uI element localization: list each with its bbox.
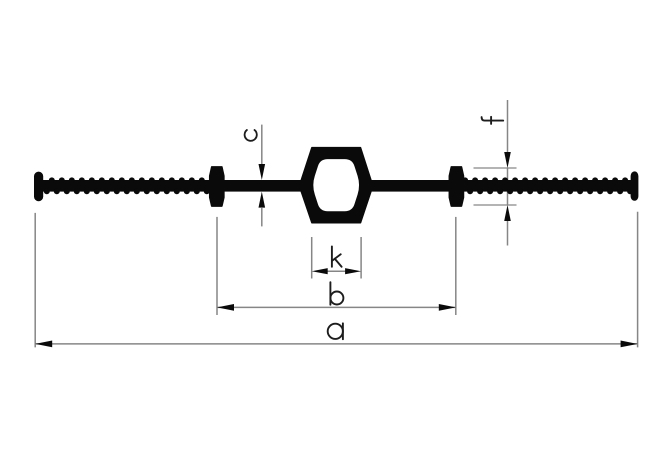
left anchor rib: [210, 167, 224, 206]
centre hollow tube: [301, 148, 371, 223]
dimension c upper witness line: [261, 125, 263, 167]
right arm bottom ribs: [467, 188, 473, 194]
right serrated arm web: [462, 180, 631, 192]
dimension b right extension line: [455, 217, 457, 315]
dimension a left arrow: [35, 341, 52, 348]
dimension k left extension line: [311, 237, 313, 279]
web between left rib and centre tube: [217, 180, 304, 192]
left end bulb: [34, 172, 43, 202]
dimension a left extension line: [34, 213, 36, 348]
dimension b line: [217, 306, 456, 308]
dimension k right extension line: [360, 237, 362, 279]
dimension c label: [245, 130, 257, 141]
dimension c upper arrow: [259, 164, 266, 180]
dimension f upper arrow: [504, 152, 511, 168]
right anchor rib: [449, 167, 463, 206]
dimension b left extension line: [216, 217, 218, 315]
dimension a right arrow: [621, 341, 638, 348]
dimension b right arrow: [439, 304, 456, 311]
left arm bottom ribs: [44, 188, 50, 194]
dimension a right extension line: [637, 212, 639, 348]
left arm top ribs: [49, 177, 55, 183]
dimension b label: [330, 282, 343, 305]
right end bulb: [631, 171, 639, 200]
dimension f label (rotated): [482, 117, 504, 124]
dimension a line: [35, 343, 637, 345]
dimension c lower witness line: [261, 208, 263, 226]
web between centre tube and right rib: [368, 180, 457, 192]
right arm top ribs: [462, 177, 468, 183]
dimension k label: [332, 246, 342, 266]
dimension a label: [328, 323, 343, 339]
dimension f lower extension line: [474, 204, 517, 206]
dimension k right arrow: [345, 268, 361, 274]
dimension f upper extension line: [474, 167, 517, 169]
dimension b left arrow: [217, 304, 234, 311]
left serrated arm web: [42, 180, 212, 192]
dimension c lower arrow: [259, 192, 266, 208]
dimension f lower witness line: [507, 221, 509, 246]
dimension k line: [327, 270, 346, 272]
dimension f lower arrow: [504, 205, 511, 221]
dimension f upper witness line: [507, 100, 509, 153]
dimension k left arrow: [312, 268, 328, 274]
dimension f witness line (behind profile): [507, 168, 509, 205]
